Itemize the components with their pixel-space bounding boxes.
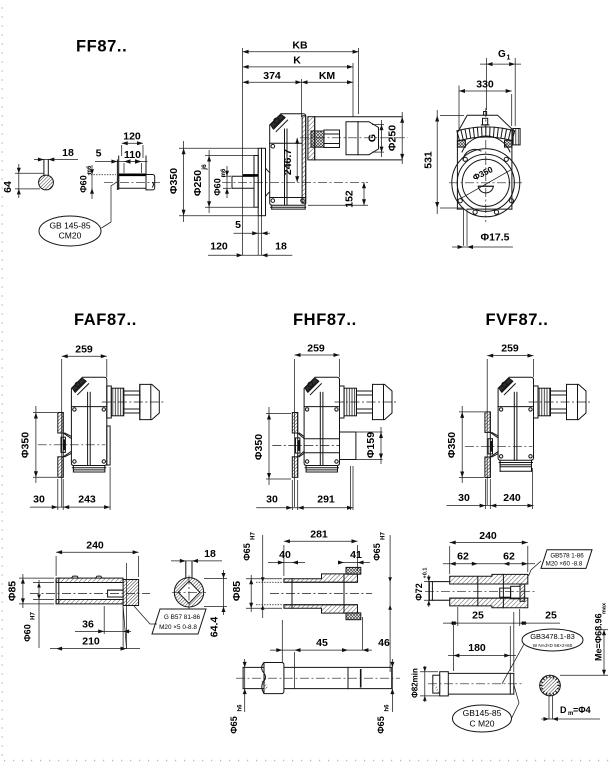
groove lines 62 <box>477 576 479 606</box>
motor fins block <box>344 388 357 416</box>
output axis centerline <box>465 445 532 447</box>
motor adapter flange <box>308 117 315 160</box>
cone transition lines <box>298 433 304 439</box>
svg-text:291: 291 <box>317 494 335 506</box>
svg-text:30: 30 <box>458 492 470 504</box>
svg-text:281: 281 <box>310 529 328 541</box>
long ext lines from upper view <box>281 620 283 663</box>
dim line phi60m6 <box>91 165 93 199</box>
corner bolts <box>305 408 308 411</box>
svg-text:240: 240 <box>479 530 497 542</box>
svg-text:GB578 1-86: GB578 1-86 <box>550 553 584 560</box>
body inner double lines <box>513 392 515 460</box>
dim 5 bottom <box>234 232 271 234</box>
FF87 input shaft side view <box>104 181 160 183</box>
front view center line <box>485 108 487 222</box>
dim G1 <box>486 58 488 110</box>
svg-text:h6: h6 <box>238 704 244 712</box>
lower shaft 180 view <box>448 672 514 674</box>
svg-text:G B57 81-86: G B57 81-86 <box>164 614 201 621</box>
svg-text:D: D <box>560 705 567 715</box>
dim KB <box>243 51 359 53</box>
svg-text:30: 30 <box>33 494 45 506</box>
end view crosshairs <box>188 576 190 610</box>
dim phi65h6 right <box>391 659 393 712</box>
motor centerline <box>102 401 166 403</box>
svg-text:Φ159: Φ159 <box>365 432 377 458</box>
svg-text:5: 5 <box>96 148 102 160</box>
base plate <box>305 466 307 473</box>
body inner double lines <box>319 392 321 465</box>
svg-text:210: 210 <box>82 636 100 648</box>
svg-text:m6: m6 <box>221 168 227 177</box>
svg-text:25: 25 <box>472 610 484 622</box>
motor rotor <box>124 391 140 413</box>
svg-text:Φ85: Φ85 <box>231 581 243 601</box>
svg-text:Φ60: Φ60 <box>23 624 33 641</box>
housing chamfer hatch <box>271 114 285 128</box>
housing inner lines <box>284 129 286 205</box>
collar left <box>440 672 449 696</box>
svg-text:62: 62 <box>503 551 515 563</box>
svg-text:259: 259 <box>75 344 93 356</box>
hatched walls right view <box>450 574 528 584</box>
center hole lines <box>548 696 550 719</box>
key thick line <box>119 174 147 177</box>
svg-text:40: 40 <box>279 549 291 561</box>
svg-text:64: 64 <box>2 181 14 193</box>
dim 18 end view <box>171 560 222 562</box>
screw parts inside right end <box>500 588 511 597</box>
svg-text:18: 18 <box>275 241 287 253</box>
dim phi250j6 <box>205 155 254 157</box>
flange upper tab hatched <box>485 412 490 433</box>
svg-text:KB: KB <box>292 40 308 52</box>
svg-text:374: 374 <box>263 70 281 82</box>
motor fan cowl <box>373 384 393 419</box>
svg-text:Φ65: Φ65 <box>242 543 252 560</box>
flange upper tab hatched <box>58 413 63 434</box>
dim phi65H7 right <box>389 535 391 672</box>
body horizontal joint <box>304 406 339 408</box>
motor rotor <box>551 391 567 413</box>
dim 46 <box>340 649 372 651</box>
flange spigot phi250j6 <box>254 156 258 208</box>
dim 41 <box>338 562 370 564</box>
cone transition lines <box>63 433 71 439</box>
bore square inside circle <box>178 581 200 603</box>
svg-text:Φ350: Φ350 <box>20 432 32 458</box>
svg-text:GB 145-85: GB 145-85 <box>49 221 90 231</box>
output flange mounting face <box>489 412 491 478</box>
svg-text:243: 243 <box>78 494 96 506</box>
chamfer hatch <box>499 378 512 392</box>
svg-text:41: 41 <box>350 549 362 561</box>
svg-text:18: 18 <box>204 548 216 560</box>
dim K <box>243 66 353 68</box>
motor fins block <box>111 388 124 416</box>
svg-text:110: 110 <box>124 149 141 161</box>
svg-text:Φ17.5: Φ17.5 <box>480 232 509 244</box>
svg-text:Φ65: Φ65 <box>372 543 382 560</box>
svg-text:120: 120 <box>210 241 228 253</box>
svg-text:46: 46 <box>378 637 390 649</box>
gearbox housing body <box>270 114 306 205</box>
dim 240 <box>55 556 57 576</box>
output flange mounting face <box>62 413 64 478</box>
FAF87 dim phi350 <box>33 412 57 414</box>
svg-text:W N×d×D 56×2×60: W N×d×D 56×2×60 <box>533 643 573 648</box>
dim G <box>381 120 383 157</box>
base plate <box>72 466 74 473</box>
svg-text:45: 45 <box>316 637 328 649</box>
body horizontal joint <box>71 406 106 408</box>
FF87 main side view: top dimension chains <box>242 48 244 255</box>
svg-text:Φ350: Φ350 <box>253 434 265 460</box>
svg-text:M20 ×5 0-8.8: M20 ×5 0-8.8 <box>159 624 197 631</box>
motor adapter <box>107 386 112 418</box>
eyebolt top <box>483 118 488 125</box>
svg-text:259: 259 <box>501 343 519 355</box>
svg-text:Φ350: Φ350 <box>446 432 458 458</box>
svg-text:KM: KM <box>319 70 336 82</box>
FAF87 dim 259 <box>61 359 63 507</box>
svg-text:Φ85: Φ85 <box>7 581 19 601</box>
protruding stub left phi72 <box>429 581 449 583</box>
housing base plate <box>271 205 273 209</box>
cooling fins arc <box>512 131 515 141</box>
dim 120 / 18 bottom <box>208 254 292 256</box>
svg-text:Φ65: Φ65 <box>376 716 386 733</box>
dim 152 <box>308 204 368 206</box>
bore lines <box>284 581 358 583</box>
wavy break line <box>262 663 266 694</box>
svg-text:180: 180 <box>468 642 486 654</box>
svg-text:H7: H7 <box>381 532 387 540</box>
dim phi85 mid <box>246 578 282 580</box>
svg-text:h6: h6 <box>385 704 391 712</box>
motor rotor <box>357 391 373 413</box>
svg-text:18: 18 <box>62 147 74 159</box>
svg-text:M20 ×60 -8.8: M20 ×60 -8.8 <box>546 561 583 568</box>
svg-text:152: 152 <box>344 190 356 208</box>
dim phi250 motor <box>401 112 403 164</box>
flange lower tab hatched <box>58 457 63 478</box>
motor rotor block <box>324 130 340 148</box>
svg-text:Φ60: Φ60 <box>79 175 89 192</box>
upper arcs motor circle <box>462 136 510 152</box>
dim 246.7 inside body <box>296 138 298 183</box>
svg-text:64.4: 64.4 <box>209 617 221 638</box>
dim phi65H7 left <box>262 535 264 618</box>
FAF87 bottom dims 30 / 243 <box>57 479 59 510</box>
bottom ext doubles <box>257 216 259 256</box>
svg-text:30: 30 <box>266 494 278 506</box>
dim 240 right view <box>449 546 451 574</box>
hollow output shaft <box>232 175 254 177</box>
terminal box right <box>513 129 520 145</box>
groove lines <box>291 579 293 608</box>
motor stator hatch block <box>311 131 324 147</box>
svg-text:H7: H7 <box>31 612 37 620</box>
hatched walls <box>284 574 358 582</box>
bell transition <box>266 168 270 197</box>
dim phi82min <box>420 671 438 673</box>
corner bolts <box>499 408 502 411</box>
motor body envelope <box>315 116 403 118</box>
svg-text:K: K <box>293 55 301 67</box>
motor fan cowl <box>567 384 587 419</box>
shaft sleeve right <box>146 175 155 190</box>
dim 110 and 5 <box>95 161 148 163</box>
motor centerline <box>529 401 593 403</box>
end cap crosshatch <box>123 580 139 606</box>
svg-text:330: 330 <box>476 79 494 91</box>
side hatch blocks <box>457 140 465 147</box>
svg-text:GB3478.1-83: GB3478.1-83 <box>530 632 575 641</box>
svg-text:240: 240 <box>503 492 521 504</box>
svg-text:120: 120 <box>123 131 141 143</box>
motor adapter <box>340 386 345 418</box>
dim phi17.5 <box>452 246 513 248</box>
shaft bore lines <box>55 578 57 604</box>
dim 210 <box>123 606 126 649</box>
svg-text:240: 240 <box>86 540 104 552</box>
center bore half circle <box>478 186 493 193</box>
svg-text:G: G <box>367 134 379 142</box>
shaft outer walls hatched <box>56 578 123 582</box>
svg-text:1: 1 <box>507 55 511 62</box>
flange lower tab hatched <box>485 457 490 478</box>
svg-text:Φ82min: Φ82min <box>411 668 420 698</box>
bottom housing lines <box>457 208 463 210</box>
dim 330 <box>458 86 460 132</box>
svg-text:25: 25 <box>545 610 557 622</box>
snap rings right <box>346 567 361 574</box>
flange lower tab hatched <box>292 457 297 478</box>
svg-text:Φ350: Φ350 <box>168 168 180 194</box>
front view housing outline <box>457 115 512 209</box>
thick groove line <box>360 669 362 688</box>
screw bore <box>108 590 124 597</box>
chamfer hatch <box>72 378 85 392</box>
chamfer hatch <box>305 378 318 392</box>
bolt holes <box>504 157 508 161</box>
parallelogram label GB5781-86 M20x50-8.8 <box>152 609 206 634</box>
dim 64 <box>15 172 44 174</box>
break hatch <box>261 680 268 688</box>
shaft hub with key <box>296 438 300 453</box>
svg-text:62: 62 <box>457 551 469 563</box>
bore lines right view <box>450 583 528 585</box>
dim 374 and KM <box>243 81 353 83</box>
FVF87 bottom dims 30 / 240 <box>485 479 487 509</box>
dim phi85 left <box>19 577 54 579</box>
motor adapter <box>534 386 539 418</box>
dim phi350 left <box>179 147 258 149</box>
FVF87 dim 259 <box>486 359 488 505</box>
leader <box>529 561 542 576</box>
svg-text:Φ250: Φ250 <box>387 125 399 151</box>
dim 40 <box>268 562 305 564</box>
dim 281 <box>283 545 285 576</box>
svg-text:G: G <box>498 49 506 60</box>
leader to parallelogram label <box>134 606 157 624</box>
svg-text:FHF87..: FHF87.. <box>293 311 357 329</box>
ellipse label GB145-85 CM20 <box>453 705 512 732</box>
leader <box>512 685 520 719</box>
hollow shaft end view circle <box>174 578 203 607</box>
gear housing body <box>498 377 533 460</box>
leader line <box>102 182 118 229</box>
motor mounting wall hatch <box>302 116 306 203</box>
collar <box>264 663 284 694</box>
FHF87 bottom dims 30 / 291 <box>291 480 293 510</box>
svg-text:259: 259 <box>307 343 325 355</box>
retaining grooves top <box>72 576 103 578</box>
dim phi60m6 main <box>223 175 231 177</box>
svg-text:Me=Φ68.96: Me=Φ68.96 <box>594 613 604 661</box>
svg-text:+0.1: +0.1 <box>423 568 429 579</box>
gear housing body <box>71 377 106 465</box>
svg-text:Φ250: Φ250 <box>192 170 204 196</box>
svg-text:=Φ4: =Φ4 <box>573 705 591 715</box>
keyway slot lines on circle <box>185 561 187 578</box>
gear housing body <box>304 377 339 465</box>
svg-text:FF87..: FF87.. <box>76 38 127 56</box>
dim 18 keyway width <box>34 159 78 161</box>
svg-text:FVF87..: FVF87.. <box>486 311 549 329</box>
output axis centerline <box>272 445 339 447</box>
dims 62 62 <box>443 563 535 565</box>
dim phi72+0.1 <box>424 581 448 583</box>
svg-text:531: 531 <box>423 151 435 169</box>
svg-text:36: 36 <box>82 619 94 631</box>
svg-text:246.7: 246.7 <box>282 149 294 175</box>
FHF87 dim phi159 <box>356 431 383 433</box>
svg-text:Φ60: Φ60 <box>213 178 223 195</box>
key thick line on shaft <box>243 174 258 177</box>
diagonal phi350 label <box>460 169 512 198</box>
phi17.5 hole lines <box>463 209 465 246</box>
dim 64.4 <box>204 578 227 580</box>
body inner double lines <box>87 392 89 465</box>
shaft hub with key <box>61 437 65 452</box>
base plate <box>499 460 501 467</box>
FAF87 rear ring <box>107 426 110 465</box>
dim 531 <box>440 115 464 117</box>
FHF87 dim phi350 <box>266 413 291 415</box>
svg-text:H7: H7 <box>251 532 257 540</box>
FF87 shaft cross-section with keyway <box>39 175 54 190</box>
output axis centerline <box>38 444 105 446</box>
dims 25 25 <box>457 607 459 626</box>
FVF87 dim phi350 <box>459 411 484 413</box>
svg-text:j6: j6 <box>201 164 208 171</box>
svg-text:Φ72: Φ72 <box>414 583 424 600</box>
FHF87 dim 259 <box>294 359 296 507</box>
body horizontal joint <box>498 406 533 408</box>
corner bolts <box>73 408 76 411</box>
parallelogram label GB5781-86 M20x60-8.8 <box>541 550 592 569</box>
leader from ellipse to shaft <box>502 644 524 684</box>
svg-text:m6: m6 <box>87 165 93 174</box>
FHF87 hollow shaft stub <box>340 432 356 460</box>
svg-text:max: max <box>602 602 608 614</box>
svg-text:CM20: CM20 <box>59 231 82 241</box>
dim 45 <box>270 649 305 651</box>
svg-text:C M20: C M20 <box>469 719 494 729</box>
flange big circles <box>452 149 520 217</box>
lower plug-in shaft view <box>243 666 392 668</box>
dim 180 <box>452 624 454 671</box>
dim 36 <box>103 606 105 634</box>
output flange mounting face <box>297 413 299 478</box>
svg-text:GB145-85: GB145-85 <box>463 708 502 718</box>
FVF87 bottom cover <box>499 460 501 471</box>
svg-text:FAF87..: FAF87.. <box>74 311 137 329</box>
motor centerline <box>335 401 399 403</box>
shaft hub with key <box>488 439 492 454</box>
motor fan cowl <box>346 122 379 155</box>
cone transition lines <box>490 432 498 438</box>
motor fan cowl <box>140 384 160 419</box>
dim phi65h6 left <box>244 659 246 712</box>
flange upper tab hatched <box>292 413 297 434</box>
dim phi60H7 <box>33 582 54 584</box>
svg-text:Φ65: Φ65 <box>229 716 239 733</box>
output flange plate phi350 <box>258 148 265 215</box>
ellipse label GB3478.1-83 <box>522 629 583 651</box>
dim 120 <box>122 142 143 144</box>
label GB 145-85 CM20 ellipse <box>39 216 101 246</box>
dim Dm=phi4 <box>541 718 600 720</box>
motor fins block <box>538 388 551 416</box>
spline end circle <box>540 675 561 696</box>
svg-text:5: 5 <box>235 219 241 231</box>
